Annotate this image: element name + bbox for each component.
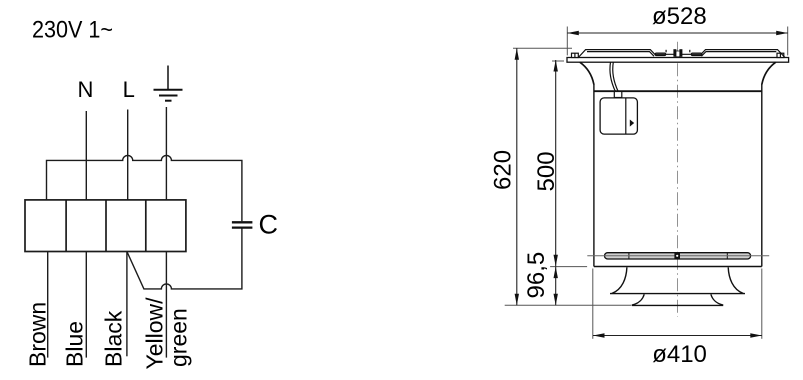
svg-text:green: green (166, 308, 192, 367)
svg-text:230V 1~: 230V 1~ (32, 17, 113, 43)
svg-text:Blue: Blue (61, 321, 87, 367)
svg-text:C: C (259, 210, 279, 240)
svg-text:96,5: 96,5 (523, 252, 550, 299)
svg-text:Brown: Brown (24, 302, 50, 367)
svg-text:500: 500 (533, 151, 560, 191)
svg-text:N: N (78, 77, 94, 102)
svg-text:620: 620 (490, 150, 517, 190)
svg-text:Black: Black (101, 310, 127, 367)
svg-text:ø528: ø528 (652, 3, 707, 30)
svg-text:L: L (123, 77, 135, 102)
svg-text:Yellow/: Yellow/ (141, 297, 167, 370)
svg-text:ø410: ø410 (652, 341, 707, 368)
